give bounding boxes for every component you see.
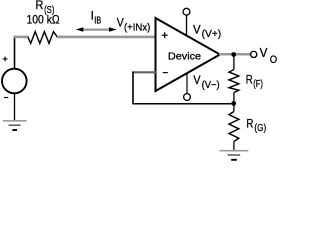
wire resistor to op-amp +input: [57, 36, 156, 39]
label IIB: [91, 9, 102, 27]
svg-text:(V−): (V−): [202, 80, 220, 91]
wire source to ground: [14, 93, 16, 120]
label RG: [246, 116, 266, 134]
op-amp U1 triangle: [156, 18, 221, 91]
svg-text:IB: IB: [94, 15, 101, 26]
op-amp plus input sign: [162, 32, 168, 38]
svg-text:V: V: [117, 15, 124, 29]
wire RF to junction: [233, 93, 235, 104]
resistor RG zigzag: [229, 112, 239, 142]
svg-text:(V+): (V+): [202, 29, 222, 40]
svg-text:(F): (F): [253, 79, 263, 90]
output wire: [219, 53, 251, 56]
svg-text:V: V: [193, 73, 200, 87]
label VO: [260, 46, 278, 66]
ground (left): [3, 121, 27, 130]
source minus sign: [4, 97, 8, 99]
source plus sign: [3, 56, 8, 61]
svg-text:(G): (G): [254, 123, 266, 134]
feedback junction dot: [231, 101, 236, 106]
wire RG to ground: [233, 142, 235, 151]
label V(V+): [193, 22, 221, 40]
label RF: [246, 73, 263, 90]
wire loop left leg: [132, 72, 134, 105]
positive supply pin: [186, 15, 188, 35]
resistor RS zigzag: [28, 32, 58, 44]
resistor RF zigzag: [229, 70, 239, 93]
svg-text:R: R: [246, 116, 253, 130]
svg-text:Device: Device: [168, 51, 201, 63]
wire corner to resistor: [14, 36, 29, 39]
output junction dot: [231, 52, 236, 57]
wire junction to RF: [233, 55, 235, 70]
output terminal circle: [251, 51, 257, 57]
svg-text:R: R: [246, 73, 253, 87]
negative supply pin: [186, 73, 188, 93]
wire source lead up: [14, 36, 16, 69]
current IIB double arrow: [76, 27, 117, 32]
svg-text:100 kΩ: 100 kΩ: [27, 12, 60, 26]
wire loop bottom to junction: [132, 103, 233, 105]
label RS: [36, 0, 55, 16]
op-amp minus input sign: [163, 72, 168, 74]
svg-text:V: V: [260, 46, 268, 60]
svg-text:(+INx): (+INx): [124, 22, 150, 33]
wire junction to RG: [233, 103, 235, 111]
label V(V-): [193, 73, 219, 91]
label V(+INx): [117, 15, 151, 33]
svg-text:R: R: [36, 0, 44, 12]
voltage source VS: [2, 69, 27, 94]
wire inverting input to loop: [133, 71, 157, 73]
ground (right): [220, 151, 249, 160]
svg-text:O: O: [270, 54, 277, 66]
svg-text:V: V: [193, 22, 201, 36]
